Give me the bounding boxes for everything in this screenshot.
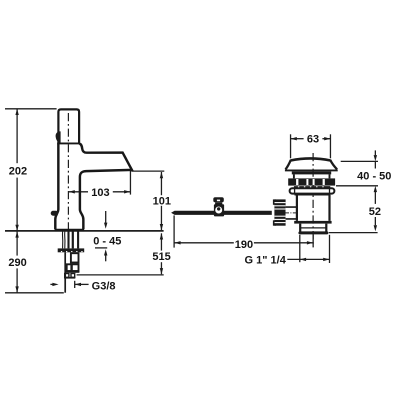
svg-text:0 - 45: 0 - 45	[93, 235, 121, 247]
svg-text:103: 103	[91, 187, 109, 199]
svg-text:202: 202	[9, 165, 27, 177]
svg-text:G3/8: G3/8	[92, 280, 116, 292]
svg-text:40 - 50: 40 - 50	[357, 170, 391, 182]
svg-text:515: 515	[152, 251, 170, 263]
svg-text:G 1" 1/4: G 1" 1/4	[245, 255, 287, 267]
svg-text:101: 101	[153, 195, 171, 207]
svg-text:190: 190	[235, 239, 253, 251]
svg-text:52: 52	[369, 206, 381, 218]
svg-text:63: 63	[307, 134, 319, 146]
svg-text:290: 290	[8, 257, 26, 269]
